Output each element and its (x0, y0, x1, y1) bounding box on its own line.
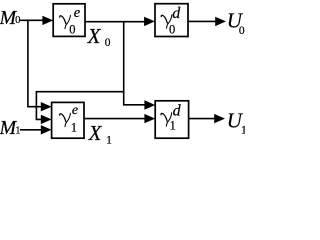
arrowhead U0 (215, 17, 226, 26)
svg-text:0: 0 (239, 25, 245, 37)
wire X0 feedback hook to encoder 1 (36, 92, 123, 120)
box decoder gamma_0^d (155, 4, 188, 37)
svg-text:0: 0 (169, 22, 175, 36)
svg-text:e: e (72, 103, 78, 118)
svg-text:X: X (87, 24, 102, 48)
svg-text:1: 1 (106, 133, 112, 146)
arrowhead encoder 1 input X0 (41, 115, 52, 124)
svg-text:X: X (88, 121, 103, 145)
svg-text:1: 1 (170, 118, 176, 132)
wire M0 input (20, 19, 44, 21)
svg-text:1: 1 (241, 123, 245, 137)
wire U1 output (189, 118, 215, 120)
svg-text:1: 1 (71, 120, 77, 134)
box decoder gamma_1^d (155, 101, 188, 138)
wire X0 junction drop to decoder 1 (124, 21, 146, 105)
symbol gamma_1^e in encoder 1 box (60, 103, 78, 134)
box encoder gamma_0^e (53, 4, 85, 37)
wire U0 output (188, 20, 216, 22)
svg-text:0: 0 (69, 23, 75, 37)
wire X1 (encoder 1 output to decoder 1) (84, 118, 146, 120)
arrowhead into encoder 0 (42, 16, 53, 25)
wire M1 input (20, 129, 43, 131)
svg-text:d: d (172, 5, 181, 22)
svg-text:d: d (173, 103, 182, 120)
box encoder gamma_1^e (52, 102, 84, 138)
arrowhead encoder 1 input M0 (41, 102, 52, 111)
arrowhead decoder 1 input X1 (144, 114, 155, 123)
arrowhead into decoder 0 (144, 17, 155, 26)
arrowhead encoder 1 input M1 (41, 125, 52, 134)
wire M0 branch down to encoder 1 (28, 20, 43, 107)
svg-text:e: e (74, 5, 81, 21)
svg-text:0: 0 (105, 37, 111, 49)
svg-text:0: 0 (15, 15, 20, 26)
symbol gamma_1^d in decoder 1 box (161, 103, 182, 133)
symbol gamma_0^e in encoder 0 box (60, 5, 81, 37)
arrowhead U1 (214, 114, 225, 123)
wire X0 (encoder 0 output to decoder 0) (85, 21, 146, 23)
symbol gamma_0^d in decoder 0 box (161, 5, 181, 37)
arrowhead decoder 1 input X0 (144, 100, 155, 109)
svg-text:1: 1 (15, 125, 20, 136)
